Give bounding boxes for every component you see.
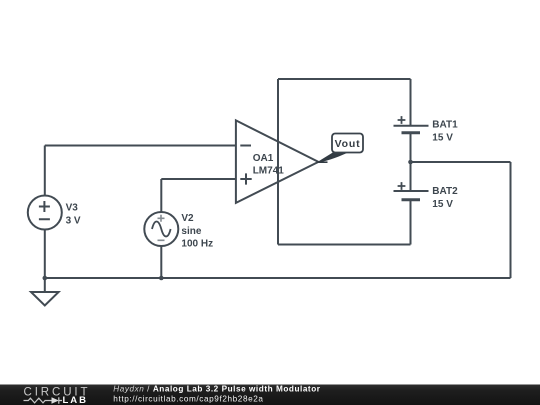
svg-text:Vout: Vout: [335, 138, 361, 150]
svg-text:LM741: LM741: [253, 166, 285, 177]
svg-text:V2: V2: [181, 213, 194, 224]
svg-text:15 V: 15 V: [432, 199, 453, 210]
svg-text:http://circuitlab.com/cap9f2hb: http://circuitlab.com/cap9f2hb28e2a: [113, 394, 263, 403]
svg-text:3 V: 3 V: [66, 215, 81, 226]
svg-text:Haydxn / Analog Lab 3.2 Pulse: Haydxn / Analog Lab 3.2 Pulse width Modu…: [113, 384, 320, 393]
svg-text:LAB: LAB: [63, 395, 89, 405]
svg-text:BAT2: BAT2: [432, 186, 458, 197]
svg-text:OA1: OA1: [253, 153, 274, 164]
svg-text:V3: V3: [66, 202, 79, 213]
svg-text:100 Hz: 100 Hz: [181, 239, 213, 250]
svg-text:BAT1: BAT1: [432, 119, 458, 130]
svg-text:15 V: 15 V: [432, 132, 453, 143]
svg-text:sine: sine: [181, 226, 201, 237]
